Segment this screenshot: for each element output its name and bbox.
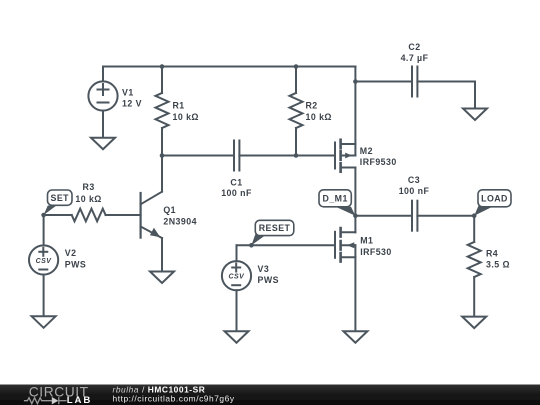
svg-text:100 nF: 100 nF: [399, 186, 430, 196]
svg-text:CSV: CSV: [229, 274, 246, 281]
svg-text:C3: C3: [408, 175, 420, 185]
svg-text:3.5 Ω: 3.5 Ω: [486, 260, 510, 270]
svg-text:CSV: CSV: [36, 258, 53, 265]
svg-text:V3: V3: [258, 264, 270, 274]
svg-text:IRF9530: IRF9530: [360, 157, 397, 167]
svg-text:10 kΩ: 10 kΩ: [173, 112, 199, 122]
svg-text:10 kΩ: 10 kΩ: [306, 112, 332, 122]
svg-text:RESET: RESET: [259, 223, 291, 233]
svg-text:2N3904: 2N3904: [163, 216, 197, 226]
svg-text:M2: M2: [360, 146, 373, 156]
svg-text:12 V: 12 V: [122, 99, 142, 109]
svg-text:4.7 µF: 4.7 µF: [401, 53, 429, 63]
svg-text:R2: R2: [306, 100, 318, 110]
svg-text:R1: R1: [173, 100, 185, 110]
svg-text:V2: V2: [65, 248, 77, 258]
svg-text:http://circuitlab.com/c9h7g6y: http://circuitlab.com/c9h7g6y: [113, 394, 235, 404]
svg-text:SET: SET: [51, 193, 70, 203]
svg-text:R3: R3: [83, 182, 95, 192]
svg-text:PWS: PWS: [258, 275, 279, 285]
svg-text:IRF530: IRF530: [360, 247, 392, 257]
svg-text:LAB: LAB: [67, 395, 92, 405]
svg-text:C1: C1: [230, 178, 242, 188]
svg-text:V1: V1: [122, 87, 134, 97]
svg-text:D_M1: D_M1: [323, 194, 348, 204]
svg-text:R4: R4: [486, 248, 498, 258]
svg-text:C2: C2: [408, 42, 420, 52]
svg-text:Q1: Q1: [163, 205, 176, 215]
svg-text:M1: M1: [360, 236, 373, 246]
svg-text:PWS: PWS: [65, 259, 86, 269]
svg-text:100 nF: 100 nF: [221, 188, 252, 198]
svg-text:LOAD: LOAD: [481, 194, 508, 204]
svg-text:10 kΩ: 10 kΩ: [75, 194, 101, 204]
